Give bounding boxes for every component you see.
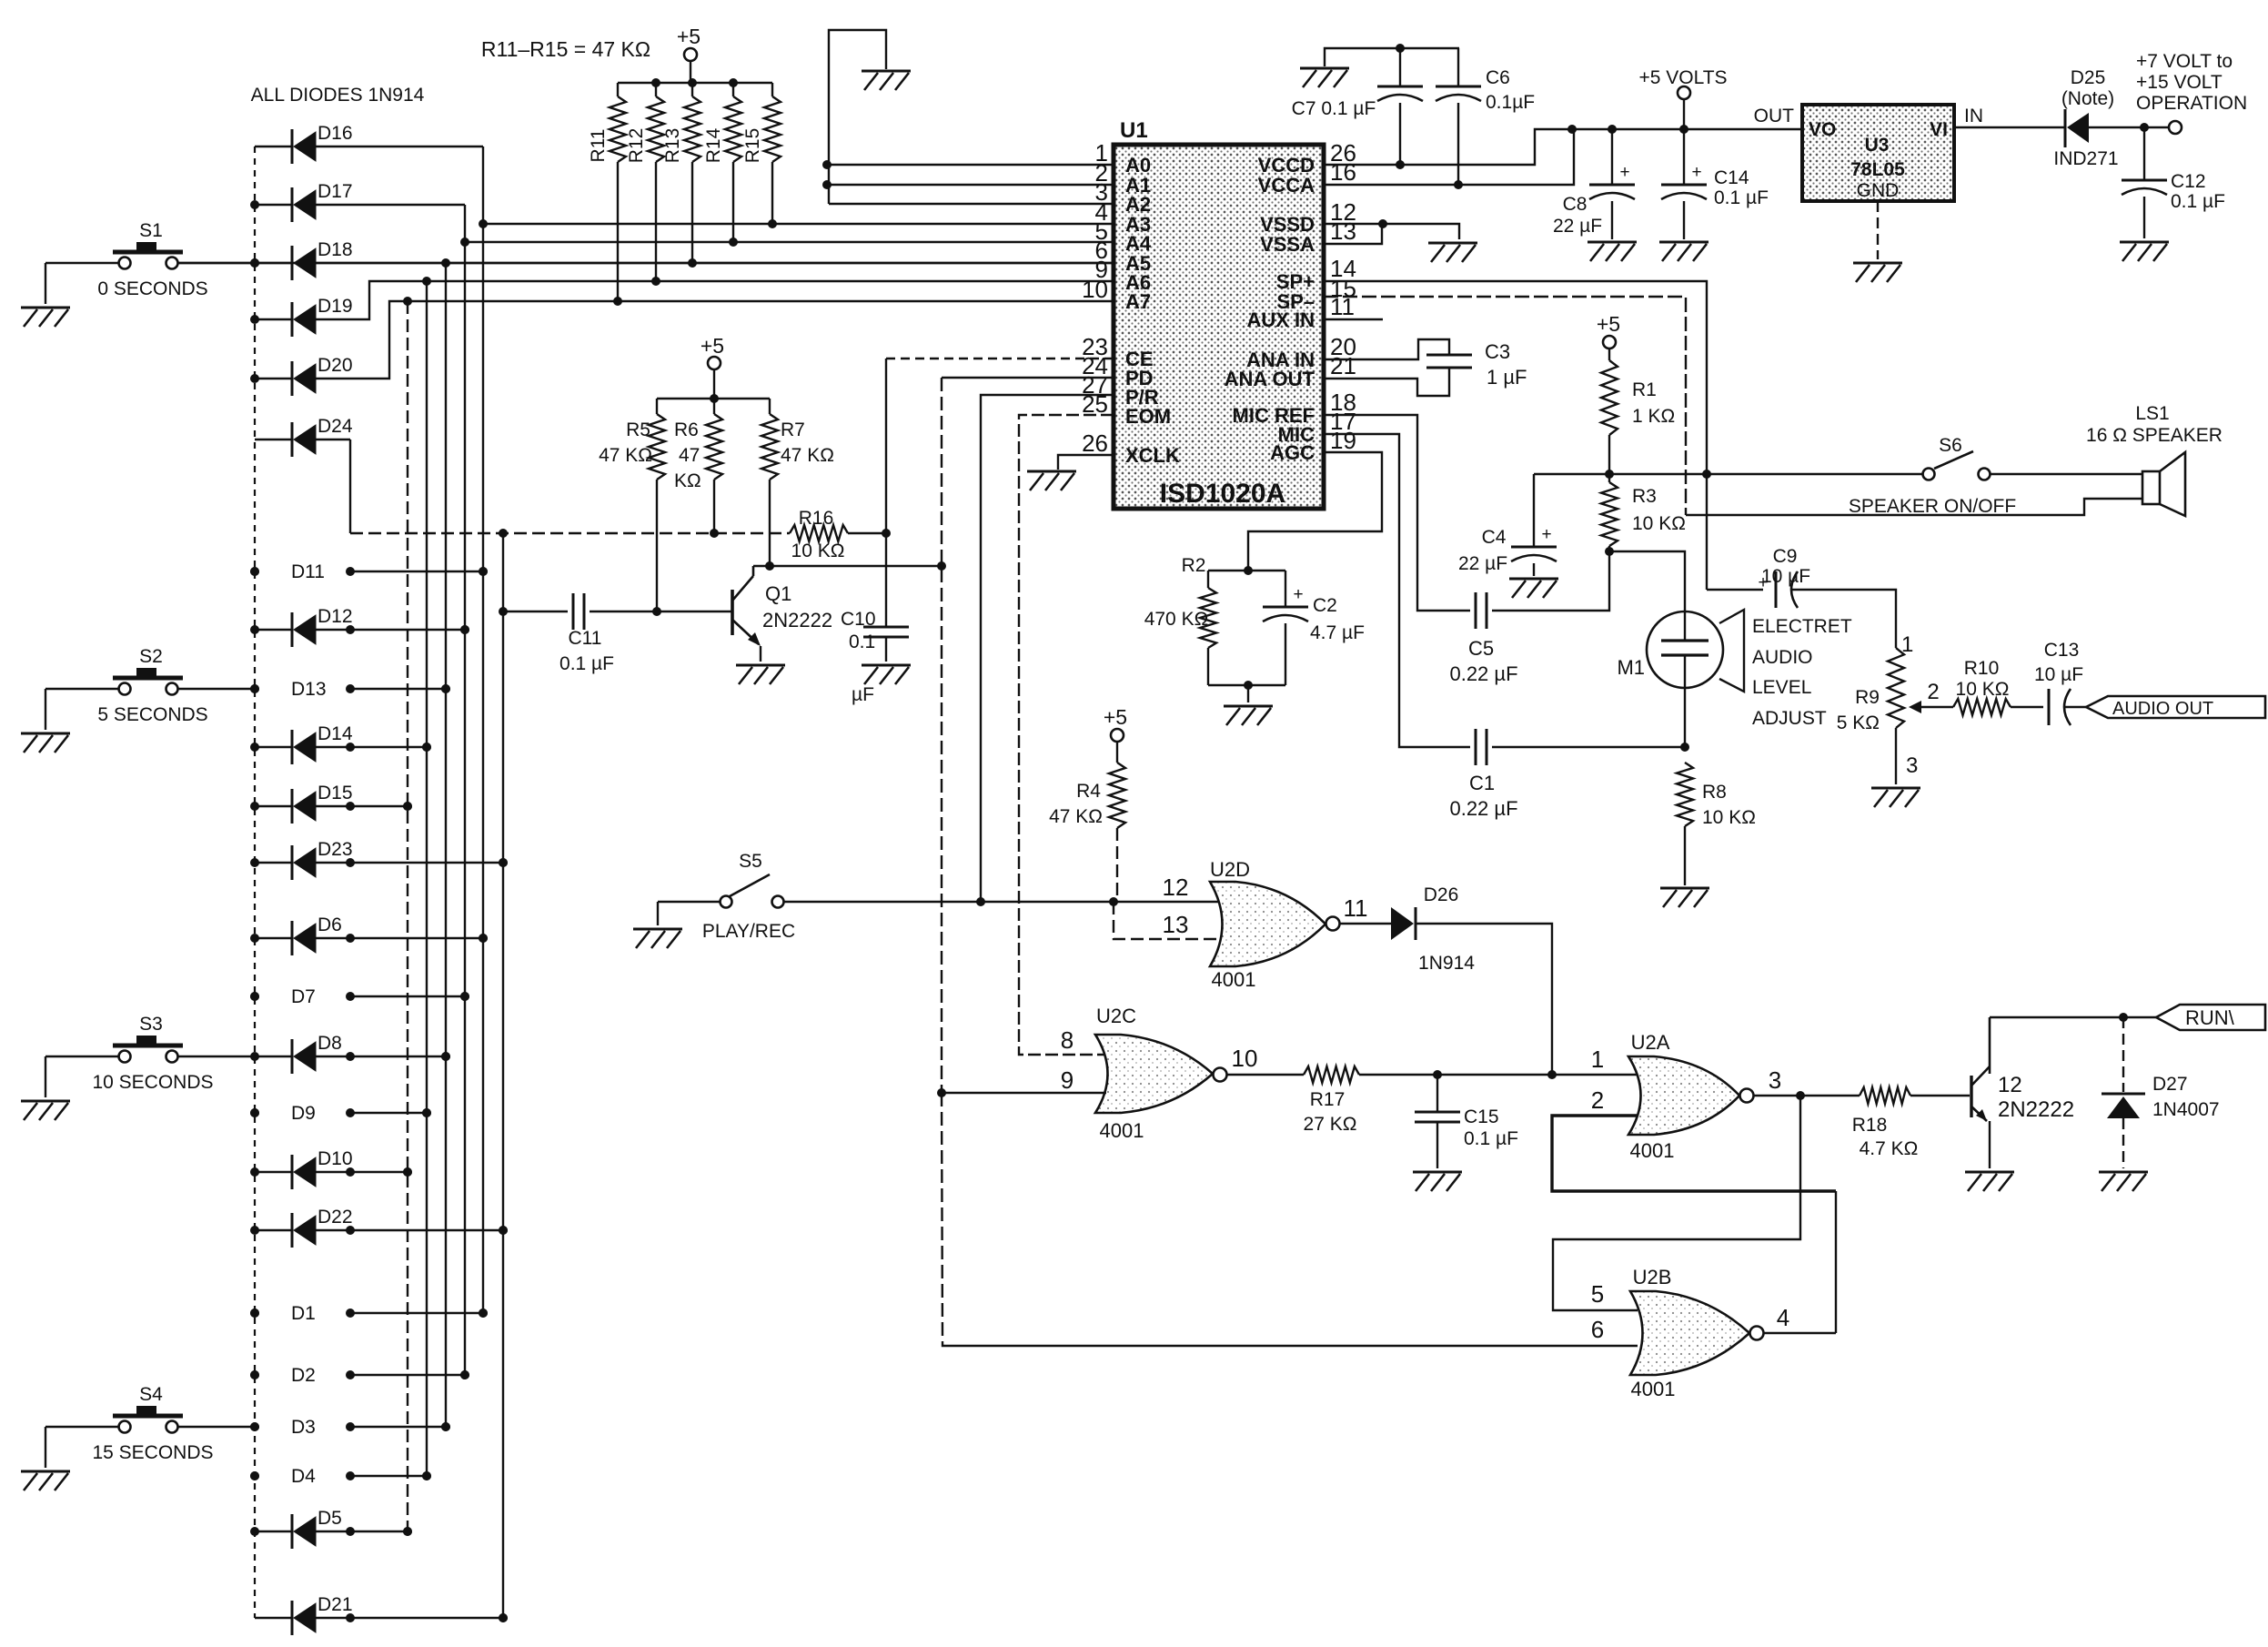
svg-text:C12: C12 (2171, 171, 2206, 192)
wire U3 GND to ground (1877, 201, 1879, 259)
svg-text:R1: R1 (1632, 379, 1657, 400)
svg-text:21: 21 (1330, 352, 1356, 379)
svg-text:SPEAKER ON/OFF: SPEAKER ON/OFF (1849, 496, 2016, 517)
resistor R5 (599, 399, 665, 611)
wire net EOM (pin 25) (1019, 415, 1114, 1055)
svg-text:AUDIO OUT: AUDIO OUT (2112, 699, 2213, 719)
svg-text:D26: D26 (1424, 884, 1459, 905)
diode D20 (255, 301, 408, 396)
svg-text:5: 5 (1591, 1280, 1604, 1308)
svg-text:+15 VOLT: +15 VOLT (2136, 72, 2223, 93)
wire U2B output pin 4 (1764, 1304, 1836, 1333)
terminal +7..+15V input (2136, 51, 2247, 134)
capacitor C8 (1553, 129, 1635, 239)
svg-text:OPERATION: OPERATION (2136, 93, 2247, 114)
wire matrix column A7 (403, 301, 412, 1536)
ground S2 (21, 733, 70, 753)
svg-text:VSSA: VSSA (1260, 233, 1315, 256)
ground S5 (633, 929, 682, 948)
svg-text:22 µF: 22 µF (1458, 553, 1507, 574)
svg-text:11: 11 (1344, 894, 1368, 922)
resistor R17 (1304, 1066, 1552, 1135)
svg-text:2: 2 (1927, 680, 1939, 704)
svg-text:C8: C8 (1563, 194, 1588, 215)
label pin 8 (1061, 1026, 1074, 1054)
capacitor C4 (1458, 474, 1557, 576)
ground VSSD (1428, 243, 1477, 262)
wire R3 to microphone (1609, 551, 1685, 611)
svg-text:4001: 4001 (1631, 1378, 1676, 1400)
svg-text:16: 16 (1330, 158, 1356, 186)
nor-gate U2D (1210, 858, 1340, 991)
svg-text:XCLK: XCLK (1125, 444, 1180, 467)
svg-text:µF: µF (852, 684, 874, 705)
svg-text:R5: R5 (626, 419, 650, 440)
svg-text:IND271: IND271 (2053, 148, 2118, 169)
diode D10 (255, 1148, 412, 1189)
resistor R4 (1049, 763, 1125, 902)
svg-text:R18: R18 (1852, 1115, 1888, 1136)
svg-text:+5: +5 (1597, 312, 1620, 336)
wire Q2 collector to RUN (1990, 1013, 2156, 1022)
ground S4 (21, 1471, 70, 1490)
svg-text:C1: C1 (1469, 772, 1495, 794)
svg-text:1: 1 (1901, 632, 1913, 657)
wire U2A pin 1 (1552, 1046, 1638, 1075)
wire diode matrix left bus (250, 147, 259, 1618)
svg-text:AGC: AGC (1270, 441, 1315, 464)
diode D17 (255, 181, 465, 222)
svg-text:+5: +5 (1104, 705, 1127, 729)
wire AGC (pin19) to R2/C2 (1244, 452, 1382, 575)
svg-text:LS1: LS1 (2135, 403, 2169, 424)
wire net VSSD/VSSA (1324, 219, 1459, 244)
svg-text:U1: U1 (1120, 118, 1148, 143)
svg-text:ADJUST: ADJUST (1752, 708, 1827, 729)
diode D15 (255, 783, 412, 823)
ground C10 (862, 665, 911, 684)
svg-text:D11: D11 (291, 561, 325, 582)
wire matrix column A6 (422, 281, 431, 1480)
switch S5 PLAY/REC (658, 851, 795, 942)
diode D5 (255, 1508, 412, 1549)
capacitor C15 (1415, 1075, 1518, 1168)
wire net VCCA (1324, 131, 1574, 189)
ground Q1 emitter (736, 665, 785, 684)
wire U2C pin 9 / U2B pin 6 (PD net) (942, 1093, 1638, 1346)
svg-text:4.7 KΩ: 4.7 KΩ (1860, 1138, 1919, 1159)
svg-text:IN: IN (1964, 106, 1983, 126)
wire +5 supply bus for R11-R15 (618, 78, 772, 87)
svg-text:5 KΩ: 5 KΩ (1837, 712, 1880, 733)
capacitor C5 (1324, 415, 1609, 685)
diode D3 (position) (250, 1417, 450, 1438)
switch S2 5 seconds (45, 646, 255, 730)
svg-text:U3: U3 (1865, 135, 1890, 156)
svg-text:GND: GND (1857, 180, 1900, 201)
svg-text:AUX IN: AUX IN (1246, 308, 1315, 331)
capacitor C9 (1707, 546, 1896, 648)
svg-text:10 KΩ: 10 KΩ (791, 541, 845, 561)
svg-text:VO: VO (1809, 119, 1836, 140)
wire net SP+ (pin 14) (1324, 281, 1711, 590)
resistor R14 (703, 83, 741, 242)
svg-text:U2B: U2B (1633, 1266, 1672, 1288)
diode D13 (position) (250, 679, 450, 700)
svg-text:10 µF: 10 µF (1761, 566, 1810, 587)
svg-text:0.1 µF: 0.1 µF (2171, 191, 2225, 212)
wire net A6 (422, 277, 1114, 286)
svg-text:U2D: U2D (1210, 858, 1250, 881)
nor-gate U2A (1628, 1031, 1754, 1162)
resistor R12 (626, 83, 664, 281)
svg-text:ELECTRET: ELECTRET (1752, 616, 1852, 637)
wire AUX IN stub (1324, 318, 1383, 320)
label pin 13 (1163, 911, 1189, 938)
diode D6 (255, 914, 488, 955)
diode D9 (position) (250, 1103, 431, 1124)
svg-text:D14: D14 (318, 723, 353, 744)
wire net VCCD / +5 rail (1324, 125, 1802, 169)
svg-text:D20: D20 (318, 355, 353, 376)
wire net CE row (D24/D23/D22/D21) (350, 529, 790, 538)
diode D11 (position) (250, 561, 488, 582)
resistor R10 (1953, 658, 2043, 715)
svg-text:4.7 µF: 4.7 µF (1310, 622, 1365, 643)
svg-text:R10: R10 (1964, 658, 2000, 679)
transistor Q2 2N2222 (1971, 1017, 2074, 1168)
svg-text:C9: C9 (1773, 546, 1798, 567)
svg-text:D3: D3 (291, 1417, 316, 1438)
svg-text:47 KΩ: 47 KΩ (599, 445, 652, 466)
resistor R3 (1601, 474, 1686, 556)
svg-text:R8: R8 (1702, 782, 1727, 803)
svg-text:A7: A7 (1125, 290, 1151, 313)
resistor R18 (1852, 1087, 1970, 1159)
wire net SP- (pin 15) (1324, 297, 1686, 515)
wire S5 to pin 12 node (784, 897, 1223, 906)
flag AUDIO OUT (2086, 696, 2265, 719)
svg-text:0.1 µF: 0.1 µF (1464, 1128, 1518, 1149)
wire net A0 (827, 164, 1114, 166)
wire U2D pin 13 (1114, 902, 1223, 939)
diode D19 (255, 281, 427, 337)
svg-text:R14: R14 (703, 127, 724, 163)
label pin 6 (1591, 1316, 1604, 1343)
svg-text:3: 3 (1769, 1066, 1781, 1094)
svg-text:D24: D24 (318, 416, 353, 437)
capacitor C3 (1324, 339, 1527, 396)
svg-text:+5: +5 (677, 25, 701, 48)
wire matrix column A4 (460, 205, 469, 1379)
svg-text:26: 26 (1082, 429, 1108, 457)
label OUT (1754, 106, 1795, 126)
ground S3 (21, 1101, 70, 1120)
microphone M1 (1617, 610, 1744, 747)
resistor R7 (761, 399, 834, 571)
svg-text:1 µF: 1 µF (1487, 366, 1527, 389)
ground R8 (1660, 888, 1709, 907)
svg-text:D7: D7 (291, 986, 316, 1007)
capacitor C6 (1436, 48, 1535, 185)
capacitor C10 (841, 533, 909, 705)
svg-text:EOM: EOM (1125, 405, 1171, 428)
svg-text:D16: D16 (318, 123, 353, 144)
wire speaker return (1686, 499, 2142, 515)
wire matrix column A3 (479, 147, 488, 1318)
wire Q1 collector to PD (753, 565, 942, 567)
svg-text:Q1: Q1 (765, 582, 791, 605)
svg-text:0 SECONDS: 0 SECONDS (97, 278, 207, 299)
svg-text:1 KΩ: 1 KΩ (1632, 406, 1675, 427)
switch S6 speaker on/off (1707, 435, 2142, 517)
svg-text:D12: D12 (318, 606, 353, 627)
diode D2 (position) (250, 1365, 469, 1386)
ground XCLK (1027, 471, 1076, 490)
svg-text:9: 9 (1061, 1066, 1074, 1094)
svg-text:(Note): (Note) (2061, 88, 2114, 109)
svg-text:13: 13 (1163, 911, 1189, 938)
diode D26 1N914 (1391, 884, 1557, 1079)
svg-text:+: + (1691, 163, 1701, 182)
wire net A3 (479, 219, 1114, 228)
svg-text:R4: R4 (1076, 781, 1101, 802)
svg-text:R2: R2 (1182, 555, 1206, 576)
nor-gate U2B (1630, 1266, 1764, 1400)
svg-text:10 KΩ: 10 KΩ (1702, 807, 1756, 828)
svg-text:2N2222: 2N2222 (762, 609, 832, 632)
svg-text:+: + (1758, 573, 1768, 592)
svg-text:10: 10 (1232, 1045, 1258, 1072)
svg-text:0.1 µF: 0.1 µF (559, 653, 614, 674)
ground C14 (1659, 242, 1709, 261)
svg-text:D27: D27 (2152, 1074, 2188, 1095)
wire C6-C7 top to ground (1325, 44, 1459, 66)
capacitor C12 (2122, 127, 2225, 238)
svg-text:R15: R15 (742, 128, 763, 164)
svg-text:10 µF: 10 µF (2034, 664, 2083, 685)
wire net A4 (460, 237, 1114, 247)
svg-text:D8: D8 (318, 1033, 342, 1054)
capacitor C1 (1324, 434, 1689, 820)
svg-text:C5: C5 (1468, 637, 1494, 660)
wire XCLK to ground (1058, 455, 1114, 470)
diode D12 (255, 606, 469, 647)
svg-text:D23: D23 (318, 839, 353, 860)
diode D24 (255, 416, 353, 533)
capacitor C13 (2034, 640, 2086, 725)
svg-text:C3: C3 (1485, 340, 1510, 363)
svg-text:0.1µF: 0.1µF (1486, 92, 1535, 113)
svg-text:KΩ: KΩ (674, 470, 701, 491)
svg-text:D9: D9 (291, 1103, 316, 1124)
label IN (1964, 106, 1983, 126)
svg-text:M1: M1 (1617, 656, 1645, 679)
ground Q2 emitter (1965, 1172, 2014, 1191)
svg-text:0.1 µF: 0.1 µF (1714, 187, 1769, 208)
svg-text:4: 4 (1777, 1304, 1789, 1331)
speaker LS1 (2086, 403, 2223, 516)
svg-text:C7 0.1 µF: C7 0.1 µF (1292, 98, 1376, 119)
svg-text:S4: S4 (139, 1384, 163, 1405)
diode D16 (255, 123, 483, 164)
wire U2A pin 2 feedback (1552, 1086, 1836, 1333)
svg-text:6: 6 (1591, 1316, 1604, 1343)
diode D23 (255, 839, 508, 880)
svg-text:2: 2 (1591, 1086, 1604, 1114)
wire U2D output pin 11 (1340, 894, 1391, 924)
wire node3 to U2B pin 5 (1553, 1096, 1800, 1310)
svg-text:D18: D18 (318, 239, 353, 260)
svg-text:D10: D10 (318, 1148, 353, 1169)
ground C8 (1588, 242, 1637, 261)
svg-text:ALL DIODES 1N914: ALL DIODES 1N914 (251, 85, 425, 106)
diode D7 (position) (250, 986, 469, 1007)
svg-text:2N2222: 2N2222 (1998, 1097, 2074, 1122)
wire A0-A2 ground loop (822, 30, 886, 204)
svg-text:R3: R3 (1632, 486, 1657, 507)
svg-text:1: 1 (1591, 1046, 1604, 1073)
svg-text:12: 12 (1998, 1073, 2022, 1097)
capacitor C2 (1208, 571, 1365, 702)
svg-text:13: 13 (1330, 217, 1356, 245)
wire U3 VI input (1954, 126, 2065, 128)
wire U2A output pin 3 (1754, 1066, 1860, 1100)
svg-text:10 KΩ: 10 KΩ (1956, 679, 2010, 700)
ground C7 (1300, 68, 1349, 87)
svg-text:D25: D25 (2071, 67, 2106, 88)
svg-text:R16: R16 (799, 508, 834, 529)
svg-text:+7 VOLT to: +7 VOLT to (2136, 51, 2233, 72)
svg-text:PLAY/REC: PLAY/REC (702, 921, 795, 942)
svg-text:D2: D2 (291, 1365, 316, 1386)
svg-text:R7: R7 (781, 419, 805, 440)
svg-text:0.22 µF: 0.22 µF (1449, 797, 1517, 820)
svg-text:+: + (1293, 585, 1303, 604)
op-amp U1 ISD1020A chip (1114, 118, 1324, 509)
diode D14 (255, 723, 431, 764)
svg-text:3: 3 (1906, 753, 1918, 778)
wire net A7 (403, 297, 1114, 306)
svg-text:78L05: 78L05 (1850, 159, 1905, 180)
svg-text:10 KΩ: 10 KΩ (1632, 513, 1686, 534)
svg-text:S3: S3 (139, 1014, 163, 1035)
svg-text:R11: R11 (588, 129, 609, 163)
svg-text:VI: VI (1930, 119, 1948, 140)
svg-text:47 KΩ: 47 KΩ (781, 445, 834, 466)
wire net P/R (pin 27) (981, 395, 1114, 902)
power +5 VOLTS terminal (1638, 67, 1727, 129)
label all diodes note (251, 85, 425, 106)
switch S3 10 seconds (45, 1014, 255, 1097)
wire R5-R7 top bus (657, 394, 770, 403)
svg-text:22 µF: 22 µF (1553, 216, 1602, 237)
power +5 terminal (R5-R7) (701, 334, 724, 399)
svg-text:19: 19 (1330, 427, 1356, 454)
svg-text:1N914: 1N914 (1418, 953, 1475, 974)
ground R2/C2 (1224, 706, 1273, 725)
svg-text:D4: D4 (291, 1466, 316, 1487)
svg-text:+5 VOLTS: +5 VOLTS (1638, 67, 1727, 88)
svg-text:RUN\: RUN\ (2185, 1006, 2235, 1029)
svg-text:OUT: OUT (1754, 106, 1795, 126)
nor-gate U2C (1095, 1005, 1227, 1142)
resistor R11 (588, 83, 626, 301)
flag RUN (2156, 1005, 2265, 1030)
svg-text:U2C: U2C (1096, 1005, 1136, 1027)
svg-text:R6: R6 (674, 419, 699, 440)
resistor R6 (674, 399, 722, 538)
svg-text:12: 12 (1163, 874, 1189, 901)
svg-text:U2A: U2A (1631, 1031, 1670, 1054)
svg-text:R12: R12 (626, 128, 647, 164)
resistor R15 (742, 83, 781, 224)
svg-text:R9: R9 (1855, 687, 1880, 708)
svg-text:D6: D6 (318, 914, 342, 935)
wire net A2 (829, 203, 1114, 205)
svg-text:0.1: 0.1 (849, 632, 875, 652)
svg-text:C15: C15 (1464, 1106, 1499, 1127)
regulator U3 78L05 (1802, 105, 1954, 201)
svg-text:0.22 µF: 0.22 µF (1449, 662, 1517, 685)
wire matrix column A5 (441, 263, 450, 1431)
resistor R13 (662, 83, 701, 263)
svg-text:C13: C13 (2044, 640, 2080, 661)
svg-text:C10: C10 (841, 609, 876, 630)
svg-text:C6: C6 (1486, 67, 1510, 88)
diode D8 (255, 1033, 450, 1074)
svg-text:ANA OUT: ANA OUT (1225, 368, 1315, 390)
resistor R2 (1144, 555, 1285, 685)
svg-text:C14: C14 (1714, 167, 1749, 188)
diode D27 1N4007 (2102, 1017, 2220, 1168)
svg-text:D5: D5 (318, 1508, 342, 1529)
diode D4 (position) (250, 1466, 431, 1487)
ground S1 (21, 308, 70, 327)
svg-text:D19: D19 (318, 296, 353, 317)
ground U3 (1853, 263, 1902, 282)
resistor R1 (1601, 360, 1675, 474)
svg-text:D17: D17 (318, 181, 353, 202)
ground C12 (2120, 242, 2169, 261)
svg-text:4001: 4001 (1100, 1119, 1144, 1142)
svg-text:R13: R13 (662, 128, 683, 164)
diode D18 (255, 239, 1114, 280)
diode D25 IND271 (2053, 67, 2169, 169)
svg-text:+: + (1619, 163, 1629, 182)
power +5 terminal (R1) (1597, 312, 1620, 360)
svg-text:8: 8 (1061, 1026, 1074, 1054)
svg-text:D15: D15 (318, 783, 353, 803)
svg-text:VCCA: VCCA (1258, 174, 1315, 197)
svg-text:+5: +5 (701, 334, 724, 358)
capacitor C11 (499, 593, 732, 674)
wire net CE (pin 23) (886, 359, 1114, 533)
svg-text:16 Ω SPEAKER: 16 Ω SPEAKER (2086, 425, 2223, 446)
svg-text:47: 47 (679, 445, 700, 466)
ground R9 (1871, 788, 1920, 807)
svg-text:27 KΩ: 27 KΩ (1304, 1114, 1357, 1135)
wire net A1 (827, 184, 1114, 186)
svg-text:C2: C2 (1313, 595, 1337, 616)
resistor R16 (790, 508, 891, 561)
svg-text:S5: S5 (739, 851, 762, 872)
svg-text:D22: D22 (318, 1207, 353, 1228)
switch S1 0 seconds (45, 220, 255, 304)
svg-text:S6: S6 (1939, 435, 1962, 456)
ground C15 (1413, 1172, 1462, 1191)
wire net A5 (S1 row) (178, 258, 1114, 268)
